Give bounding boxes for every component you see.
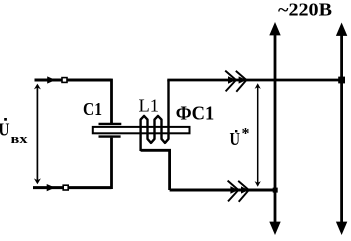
label U* (230, 126, 250, 150)
junction square line A bottom wire (273, 188, 278, 193)
arrowhead on top-left wire (47, 76, 55, 83)
wire top-right horizontal (167, 79, 341, 82)
arrowhead up line A (269, 22, 280, 35)
label U.vx (0, 118, 28, 146)
wire left-loop right vertical lower (110, 138, 113, 189)
terminal square bottom-left (63, 185, 68, 190)
wire top-left horizontal (35, 79, 112, 82)
svg-text:ФС1: ФС1 (176, 104, 215, 125)
wire left-loop right vertical upper (110, 79, 113, 123)
measurement arrow U* (255, 83, 261, 187)
junction square line B top wire (338, 77, 345, 84)
svg-text:C1: C1 (83, 99, 102, 119)
svg-text:вх: вх (11, 131, 29, 146)
power line A vertical (274, 31, 277, 226)
inductor L1 winding (141, 80, 169, 151)
chevron 1 on bottom-right wire (228, 181, 239, 202)
measurement arrow Uvx (34, 84, 41, 185)
wire step from coil to bottom-right (141, 150, 170, 190)
svg-text:L1: L1 (139, 96, 160, 116)
chevron 1 on top-right wire (225, 71, 236, 92)
power line B vertical (340, 31, 343, 226)
capacitor C1 top plate (99, 123, 122, 125)
chevron 2 on top-right wire (236, 71, 247, 92)
svg-text:U: U (0, 120, 10, 140)
wire bottom-right horizontal (170, 189, 275, 192)
svg-text:*: * (242, 126, 250, 143)
svg-text:~220В: ~220В (278, 0, 332, 20)
arrowhead down line A (269, 222, 280, 235)
wire bottom-left horizontal (33, 186, 112, 189)
chevron 2 on bottom-right wire (238, 181, 249, 202)
arrowhead down line B (336, 222, 347, 235)
arrowhead up line B (336, 23, 347, 36)
resonator bar of filter FS1 (hollow rod) (93, 127, 190, 133)
capacitor C1 bottom plate (99, 135, 121, 137)
terminal square top-left (62, 78, 67, 83)
svg-text:U: U (230, 129, 241, 149)
arrowhead on bottom-left wire (47, 184, 55, 191)
